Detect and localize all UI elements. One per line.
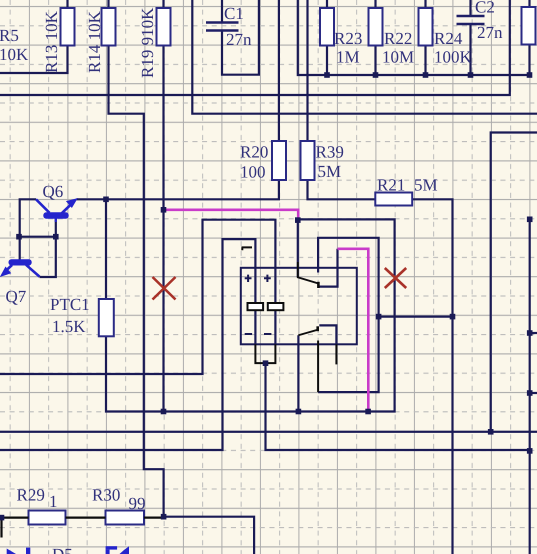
wire relay to R21 link (379, 316, 453, 318)
transistor Q7 (1, 260, 40, 277)
wire bus y73 left (0, 46, 68, 74)
wire Q6 emitter to R20 (77, 180, 279, 199)
wire top bus y75 (298, 0, 530, 75)
wire C2 top pin (469, 0, 471, 16)
wire relay outer loop2 (0, 239, 255, 450)
wire R19 top pin (162, 0, 164, 8)
resistor R14 (102, 8, 116, 46)
svg-text:27n: 27n (226, 30, 252, 49)
cut glyphs bottom left (7, 548, 31, 554)
wire R14 top pin (107, 0, 109, 8)
resistor R24 (419, 8, 433, 46)
wire magenta upper (164, 210, 299, 219)
wire cells common down (266, 363, 530, 450)
wire magenta lower (338, 249, 369, 412)
svg-text:R39: R39 (316, 143, 344, 162)
relay lower armature (298, 330, 317, 336)
svg-text:10M: 10M (382, 48, 414, 67)
wire stub right y333 (530, 332, 537, 334)
resistor R29 (29, 511, 66, 525)
capacitor C1 (206, 23, 239, 31)
svg-text:R21: R21 (377, 176, 405, 195)
svg-text:R24: R24 (434, 29, 463, 48)
relay cell 1 (248, 303, 264, 310)
svg-text:C1: C1 (224, 4, 244, 23)
wire R20 top (278, 0, 280, 141)
wire bus y432 (0, 431, 537, 433)
svg-text:1.5K: 1.5K (52, 317, 86, 336)
svg-text:27n: 27n (477, 23, 503, 42)
wire C1 bottom U (222, 0, 259, 75)
wire upper NC hook (319, 249, 337, 287)
wire right edge vertical (529, 219, 531, 554)
wire right resistor pins (528, 0, 530, 75)
wire R14 jog (109, 46, 164, 517)
wire R21 right (412, 199, 452, 554)
resistor R19 (157, 8, 171, 46)
svg-text:R14 10K: R14 10K (85, 10, 104, 73)
relay pin label 1 (242, 247, 253, 250)
wire Q6 base link (40, 219, 56, 278)
relay lower contact tick (316, 326, 319, 331)
svg-text:R13 10K: R13 10K (42, 10, 61, 73)
wire R13 top pin (66, 0, 68, 8)
wire stub right y393 (530, 392, 537, 394)
wire bus y113.7 (192, 0, 537, 114)
relay K1 box (241, 268, 357, 345)
resistor R13 (61, 8, 75, 46)
wire R39 top (306, 0, 308, 141)
error cross X2 (385, 268, 406, 288)
wire relay left loop (0, 220, 275, 374)
svg-text:R23: R23 (334, 29, 362, 48)
svg-text:100: 100 (240, 163, 266, 182)
wire PTC1 top (105, 199, 107, 299)
wire R39 to R21 (308, 180, 376, 199)
svg-text:100K: 100K (434, 48, 473, 67)
relay internals (255, 262, 336, 392)
svg-text:99: 99 (129, 494, 146, 513)
wire y132 right (491, 133, 537, 432)
relay upper contact tick (317, 282, 320, 288)
relay lower NC pin (317, 341, 319, 393)
transistor Q6 (36, 199, 77, 222)
svg-text:Q6: Q6 (43, 182, 64, 201)
svg-text:C2: C2 (475, 0, 495, 17)
svg-text:D5: D5 (52, 545, 73, 554)
relay minus signs (245, 333, 272, 335)
wire bus y95 (0, 0, 510, 95)
relay cell pins join (255, 344, 275, 363)
relay cell 2 (268, 303, 284, 310)
svg-text:R5: R5 (0, 26, 19, 45)
svg-text:5M: 5M (318, 162, 342, 181)
relay stub pin (335, 344, 337, 364)
svg-text:1: 1 (49, 492, 58, 511)
svg-text:R19 910K: R19 910K (138, 7, 157, 78)
resistor R22 (369, 8, 383, 46)
resistor top right unlabeled (522, 7, 536, 45)
wire switch net loop (318, 238, 379, 392)
wire R23 pins (326, 0, 328, 75)
svg-text:R29: R29 (17, 486, 45, 505)
wire C1 top pin (221, 0, 223, 23)
resistor R30 (106, 511, 145, 525)
wire Q6 collector feed (20, 199, 36, 259)
svg-text:5M: 5M (414, 176, 438, 195)
resistor R39 (301, 141, 315, 180)
svg-text:1M: 1M (336, 48, 360, 67)
wire R22 pins (374, 0, 376, 75)
wire R24 pins (424, 0, 426, 75)
wire R19 column (162, 46, 164, 412)
wire upper pole (297, 220, 299, 277)
error cross X1 (153, 277, 176, 300)
svg-text:R22: R22 (384, 29, 412, 48)
svg-text:PTC1: PTC1 (50, 295, 90, 314)
svg-text:R20: R20 (240, 143, 268, 162)
wire R29 black net (0, 518, 164, 538)
wire lower NO hook (319, 325, 336, 344)
wire PTC1 bottom to bus (106, 219, 395, 411)
wire bottom jog down (164, 517, 255, 554)
svg-text:10K: 10K (0, 45, 29, 64)
svg-text:R30: R30 (92, 486, 120, 505)
resistor R21 (375, 193, 412, 206)
wire C2 bottom pin (469, 24, 471, 75)
capacitor C2 (457, 16, 485, 24)
relay upper armature (298, 262, 320, 284)
wire lower pole (297, 335, 299, 411)
cut glyphs D5 diode (106, 546, 129, 554)
svg-text:Q7: Q7 (6, 287, 27, 306)
relay plus signs (245, 275, 271, 282)
thermistor PTC1 (99, 299, 114, 336)
wire Q7 base riser (19, 236, 56, 238)
resistor R20 (272, 141, 286, 180)
resistor R23 (320, 8, 334, 46)
